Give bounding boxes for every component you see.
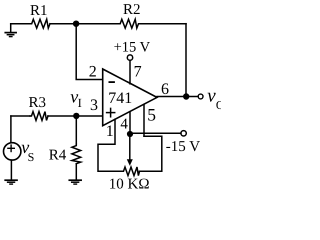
svg-text:3: 3 xyxy=(90,97,98,114)
wire R1 to R2 through top node xyxy=(50,23,119,25)
op-amp minus marking xyxy=(109,81,114,83)
svg-text:7: 7 xyxy=(134,63,142,80)
pin 7 wire and +15V terminal xyxy=(129,61,131,84)
output node dot xyxy=(183,93,189,99)
node v1 junction dot xyxy=(73,113,79,119)
wire R2 to right corner xyxy=(142,23,187,25)
pin 6 output wire xyxy=(157,96,198,98)
wire pin4 node to -15V terminal xyxy=(130,132,181,134)
svg-text:I: I xyxy=(78,96,82,110)
svg-text:v: v xyxy=(207,86,216,107)
ground (under R4) xyxy=(69,180,81,184)
svg-text:O: O xyxy=(216,98,221,112)
svg-text:R3: R3 xyxy=(29,95,47,111)
wire R3 to pin 3 through node v1 xyxy=(48,115,103,117)
svg-text:R2: R2 xyxy=(123,2,141,18)
svg-text:741: 741 xyxy=(108,90,132,107)
wire pin2 branch: node down then right to op-amp xyxy=(76,24,103,80)
svg-text:2: 2 xyxy=(89,64,97,81)
svg-text:R4: R4 xyxy=(49,147,67,163)
resistor R1 xyxy=(30,19,50,28)
node A (R1/R2/feedback junction) xyxy=(73,21,79,27)
svg-text:6: 6 xyxy=(161,81,169,98)
op-amp plus marking xyxy=(107,108,115,116)
wire feedback vertical (right side) xyxy=(185,24,187,97)
svg-text:+15 V: +15 V xyxy=(114,39,151,55)
svg-text:10 KΩ: 10 KΩ xyxy=(109,176,150,192)
pin 4 junction dot xyxy=(127,131,133,137)
+15V terminal circle xyxy=(127,55,132,60)
output terminal circle xyxy=(198,94,203,99)
resistor R2 xyxy=(119,19,142,28)
pin 4 wire xyxy=(129,112,131,134)
-15V terminal circle xyxy=(181,131,186,136)
source vs circle xyxy=(4,143,21,160)
wire vs bottom to ground xyxy=(10,160,12,179)
resistor R3 xyxy=(30,112,48,121)
pin 1 wire (offset null) xyxy=(98,119,122,171)
wire vs to R3 xyxy=(11,115,30,117)
svg-text:5: 5 xyxy=(147,105,156,125)
svg-text:4: 4 xyxy=(120,116,128,132)
source vs vertical wire up xyxy=(10,116,12,142)
ground (top-left, input ground) xyxy=(5,24,16,37)
op-amp U1 741 triangle xyxy=(103,69,157,126)
wire pin5 to pot right end xyxy=(140,136,162,171)
svg-text:R1: R1 xyxy=(30,3,48,19)
ground (under vs) xyxy=(5,180,17,184)
svg-text:S: S xyxy=(28,150,35,164)
pot wiper arrow from pin4 node xyxy=(129,134,131,160)
svg-text:1: 1 xyxy=(106,123,114,140)
pin 5 wire xyxy=(143,105,145,137)
potentiometer 10K zigzag xyxy=(122,167,140,176)
source vs plus sign xyxy=(8,145,14,151)
wire ground to R1 xyxy=(11,23,30,25)
resistor R4 (vertical) xyxy=(75,116,77,144)
svg-text:-15 V: -15 V xyxy=(166,139,200,155)
